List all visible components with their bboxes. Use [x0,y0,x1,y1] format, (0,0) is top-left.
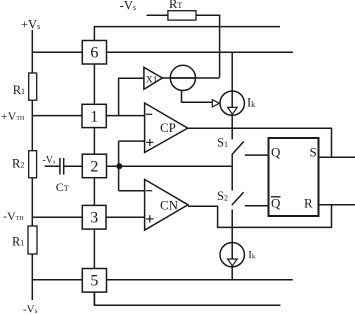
pin box 3 [82,205,106,229]
wire: multiplier line through circle [162,77,219,79]
svg-text:Ik: Ik [247,96,255,110]
svg-text:Q: Q [271,145,281,160]
pin box 2 [82,154,106,178]
svg-text:-Vs: -Vs [23,303,38,314]
svg-text:R: R [304,196,313,211]
svg-text:CN: CN [160,197,179,212]
svg-text:+Vs: +Vs [21,18,40,32]
wire: top current source feed from rail [231,52,233,139]
wire: row to pin 3 / CN non-inverting input [32,216,144,218]
wire: CT node row to pin 2 and switch line [64,165,232,167]
svg-text:-Vs: -Vs [42,155,56,166]
flip-flop U1 [269,138,319,216]
svg-text:X1: X1 [146,76,158,86]
svg-text:Q: Q [271,196,281,211]
wire: bottom rail from pin 5 [94,292,280,305]
switch S1 [232,142,244,155]
wire: row to pin 6 rail [32,51,293,53]
svg-text:R1: R1 [12,235,24,249]
wire: X1 buffer input tee [119,78,144,115]
svg-text:CT: CT [56,180,69,194]
resistor R1 upper [29,73,37,100]
wire: S1 contact stub to Q [245,154,269,156]
wire: capacitor node vertical between switches [231,155,233,191]
svg-text:1: 1 [90,108,98,125]
svg-text:-VTH: -VTH [3,209,24,223]
op-amp CP input signs [146,113,152,115]
switch S2 [232,192,244,205]
Qbar overline [271,196,281,198]
wire: control arrow into top current source [182,90,213,102]
resistor RT [168,11,196,20]
wire: row to pin 5 rail [32,279,293,281]
wire: CN inverting input [119,190,145,192]
wire: RT branch from -Vs [147,15,220,77]
current source Ik bottom [220,243,244,267]
op-amp CN [145,179,188,230]
svg-text:S2: S2 [217,189,228,203]
current source Ik top [220,91,244,115]
resistor R1 lower [28,226,37,254]
pin box 6 [82,41,106,65]
resistor R2 [29,151,37,178]
svg-text:R1: R1 [13,83,25,97]
wire: row to pin 1 / CP inverting input [32,115,144,117]
capacitor CT plates [59,158,61,175]
wire: R output line [319,204,355,206]
svg-text:RT: RT [169,0,182,11]
svg-text:3: 3 [90,210,98,227]
svg-text:2: 2 [90,158,98,175]
op-amp CP [145,103,188,153]
buffer X1 [144,67,163,89]
wire: CN output wrap to R input [188,205,332,228]
wire: S2 contact stub to Qbar [245,205,269,207]
svg-text:S1: S1 [217,136,228,150]
wire: left supply chain vertical [31,30,33,300]
pin box 5 [82,269,106,293]
svg-text:S: S [310,145,317,160]
wire: S output line [319,156,355,158]
svg-text:5: 5 [90,273,98,290]
wire: top rail from pin 6 [94,27,280,41]
wire: CP+ to node to CN- vertical [118,141,120,191]
svg-text:CP: CP [160,120,176,135]
pin box 1 [82,104,106,127]
wire: pin box column vertical [93,41,95,306]
wire: S2 lower vertical to bottom current source [231,210,233,280]
wire: CP output to S input wrap [188,128,332,157]
svg-text:6: 6 [90,45,98,62]
multiplier circle [170,65,195,90]
svg-text:Ik: Ik [248,249,256,261]
node: junction dot at pin2/comparator node [116,163,122,169]
svg-text:+VTH: +VTH [1,109,25,123]
svg-text:R2: R2 [12,157,24,171]
wire: CP non-inverting input [119,140,145,142]
op-amp CN input signs [146,190,152,192]
svg-text:-Vs: -Vs [120,0,136,12]
wire: CT left stub from -Vs [45,165,60,167]
